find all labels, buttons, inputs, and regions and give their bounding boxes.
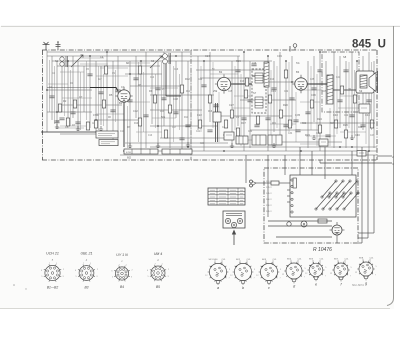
wire v26 — [197, 56, 199, 130]
wire v38 — [307, 61, 309, 148]
resistor R2 — [73, 100, 76, 108]
svg-text:R22: R22 — [302, 123, 307, 125]
svg-text:C41: C41 — [336, 77, 341, 79]
wire v32 — [249, 61, 251, 148]
tube base UCH21 — [41, 251, 65, 289]
capacitor C1 — [49, 95, 54, 97]
capacitor C12 — [213, 104, 218, 106]
speaker section box (dash-dot) — [322, 52, 359, 112]
lamp resistor box — [236, 136, 248, 144]
pickup jack above frame — [293, 44, 297, 48]
capacitor C34 — [70, 111, 75, 113]
wire v34 — [273, 61, 275, 132]
svg-text:C20: C20 — [198, 79, 203, 81]
svg-text:C47: C47 — [370, 135, 375, 137]
svg-text:R25: R25 — [322, 91, 327, 93]
capacitor C3 — [75, 121, 80, 123]
svg-text:R12: R12 — [185, 77, 190, 81]
capacitor C7 — [143, 114, 148, 116]
capacitor C17 — [283, 124, 288, 126]
svg-text:B4: B4 — [120, 285, 124, 289]
wire p17 — [336, 238, 338, 243]
wire v13 — [112, 61, 114, 140]
capacitor C6 — [127, 99, 132, 101]
ballast resistor R30 — [293, 178, 296, 188]
svg-text:R19: R19 — [270, 79, 275, 81]
IF coil lower — [255, 97, 263, 108]
resistor R17 — [279, 110, 282, 118]
main frame top (dash-dot) — [42, 49, 377, 51]
mains voltage labels — [266, 181, 272, 213]
capacitor C33 — [133, 77, 138, 79]
wire feedback — [300, 122, 375, 124]
capacitor C22 — [366, 99, 371, 101]
output transformer S5 — [327, 75, 333, 104]
switch wafer d — [282, 258, 307, 288]
svg-text:B1: B1 — [119, 101, 123, 105]
svg-text:C30: C30 — [248, 131, 253, 133]
IF coil upper — [255, 73, 263, 83]
svg-text:R7: R7 — [127, 125, 131, 129]
svg-text:B3: B3 — [84, 285, 88, 289]
capacitor C11 — [201, 84, 206, 86]
capacitor C38 — [254, 124, 259, 126]
svg-text:R15: R15 — [236, 59, 241, 63]
wire v45 — [351, 52, 353, 140]
wire v28 — [209, 52, 211, 122]
wire bus h24 — [150, 146, 377, 148]
svg-text:145 V: 145 V — [266, 193, 272, 195]
wire p16 — [245, 155, 247, 183]
wire v49 — [373, 61, 375, 148]
capacitor C8 — [155, 87, 160, 89]
wire bus h3 — [52, 60, 272, 62]
capacitor C2 — [59, 117, 64, 119]
svg-text:c: c — [268, 286, 270, 290]
svg-text:a: a — [217, 286, 219, 290]
svg-text:UM 4: UM 4 — [154, 252, 163, 256]
capacitor C29 — [343, 69, 348, 71]
wire v19 — [151, 66, 153, 124]
wire bus h2 — [47, 55, 240, 57]
main frame right (dash-dot) — [376, 50, 378, 160]
capacitor C4 — [98, 91, 103, 93]
svg-text:B3: B3 — [296, 70, 300, 74]
signal trace 7 — [252, 75, 266, 77]
svg-text:1M: 1M — [348, 89, 351, 91]
capacitor C32 — [179, 137, 184, 139]
tube B1 UCH21 (mixer) — [115, 87, 132, 105]
wire v12 — [106, 52, 108, 133]
svg-text:C21: C21 — [196, 131, 201, 133]
signal trace 5 — [166, 64, 181, 96]
capacitor C14 — [247, 99, 252, 101]
capacitor C36 — [295, 129, 300, 131]
svg-text:4708: 4708 — [126, 152, 132, 154]
svg-text:220 V: 220 V — [266, 205, 272, 207]
ground bus left — [41, 131, 106, 133]
svg-text:C40: C40 — [333, 113, 338, 117]
svg-text:UY 1 N: UY 1 N — [116, 253, 128, 257]
resistor R22 — [344, 130, 347, 138]
capacitor C15 — [265, 117, 270, 119]
switch wafer f — [330, 258, 353, 286]
resistor R27 — [164, 130, 167, 138]
switch wafer g — [355, 257, 378, 285]
tube B4 UY1N (rectifier) — [330, 222, 345, 238]
resistor R16 — [268, 95, 271, 103]
svg-text:R18: R18 — [208, 111, 213, 113]
volume control track — [215, 103, 217, 142]
resistor R28 — [284, 70, 287, 78]
resistor R23 — [353, 95, 356, 103]
wire v5 — [67, 61, 69, 125]
svg-text:C27: C27 — [229, 103, 234, 107]
svg-text:C6: C6 — [65, 125, 69, 129]
wire v22 — [169, 56, 171, 148]
wire minor horizontals — [48, 58, 366, 144]
tube base UY1N — [111, 253, 133, 289]
resistor R8 — [153, 95, 156, 103]
svg-text:C13: C13 — [148, 135, 153, 137]
svg-text:R24: R24 — [317, 117, 322, 121]
antenna coil S1 — [60, 57, 64, 61]
svg-text:C7: C7 — [79, 95, 83, 99]
resistor R19 — [310, 100, 313, 108]
loudspeaker — [356, 71, 374, 93]
section divider (dash-dot) — [190, 50, 192, 160]
wire bus h9 — [130, 85, 182, 87]
svg-text:C32: C32 — [284, 91, 289, 93]
oscillator note box 1 — [96, 131, 118, 138]
wire bus h21 — [160, 137, 232, 139]
pointer arrow — [233, 234, 235, 245]
coupling unit box — [224, 132, 234, 140]
wire p9 — [276, 236, 332, 238]
wire v2 — [51, 56, 53, 120]
dial assembly box L — [124, 149, 158, 154]
wire bus h6 — [125, 73, 162, 75]
svg-text:25k: 25k — [213, 89, 218, 93]
wire v8 — [83, 66, 85, 112]
resistor R20 — [318, 125, 321, 133]
wire v35 — [279, 52, 281, 140]
wire v15 — [129, 61, 131, 148]
wire junctions — [46, 51, 370, 152]
resistor R18 — [288, 120, 291, 128]
wire p15 — [358, 232, 374, 234]
svg-text:B5: B5 — [156, 285, 160, 289]
wire v40 — [319, 52, 321, 151]
wire bus h22 — [268, 141, 342, 143]
tube B2 UCH21 (IF amp) — [215, 74, 233, 93]
signal trace 6 — [333, 89, 356, 91]
wire bus h18 — [150, 125, 218, 127]
resistor R6 — [86, 122, 89, 130]
wire p12 — [373, 155, 375, 233]
capacitor C30 — [235, 69, 240, 71]
resistor R25 — [224, 120, 227, 128]
svg-text:C17: C17 — [172, 127, 177, 129]
output lead 2 — [377, 155, 392, 157]
signal trace 1 — [90, 88, 118, 92]
capacitor C19 — [311, 87, 316, 89]
wire p7 — [268, 220, 332, 222]
wire v47 — [362, 56, 364, 130]
wire p19 — [287, 195, 290, 197]
wire v44 — [345, 61, 347, 148]
capacitor C20 — [337, 99, 342, 101]
svg-text:C25: C25 — [228, 91, 233, 93]
svg-text:125 V: 125 V — [266, 187, 272, 189]
resistor R31b — [245, 78, 248, 86]
switch wafer a — [205, 259, 231, 290]
wire bus h14 — [150, 109, 202, 111]
wire p1 — [267, 155, 269, 217]
svg-text:C18: C18 — [173, 97, 178, 101]
wire v11 — [100, 66, 102, 125]
wire p20 — [287, 201, 290, 203]
wire v27 — [203, 61, 205, 151]
capacitor above frame — [56, 43, 61, 51]
paper speck 2 — [25, 288, 26, 289]
svg-text:245 V: 245 V — [266, 211, 272, 213]
wire v9 — [89, 56, 91, 128]
wire v10 — [95, 61, 97, 133]
svg-text:0,1: 0,1 — [121, 85, 125, 89]
resistor R4 — [102, 100, 105, 108]
svg-text:C42: C42 — [344, 115, 349, 117]
wire v42 — [333, 52, 335, 148]
wire v23 — [175, 61, 177, 118]
capacitor C5 — [110, 109, 115, 111]
dial assembly box R — [162, 149, 192, 154]
svg-text:B2: B2 — [219, 70, 223, 74]
wire bus h13 — [60, 104, 122, 106]
wire bus h23 — [125, 142, 228, 144]
wire bus h17 — [96, 119, 142, 121]
svg-text:50k: 50k — [161, 115, 166, 119]
wire v25 — [187, 61, 189, 148]
wire p10 — [361, 147, 363, 243]
voltage adaptor box — [290, 175, 356, 217]
resistor R32b — [256, 116, 259, 124]
capacitor C16 — [271, 87, 276, 89]
wire p2 — [284, 155, 286, 175]
capacitor C28 — [325, 134, 330, 136]
antenna A — [43, 42, 50, 50]
tuning arrow — [71, 55, 83, 67]
wire bus h7 — [200, 77, 252, 79]
resistor R10 — [180, 85, 183, 93]
resistor R9 — [168, 105, 171, 113]
wire v21 — [163, 52, 165, 126]
svg-text:R23: R23 — [305, 133, 310, 137]
wire bus h8 — [268, 81, 296, 83]
component value labels — [49, 54, 370, 137]
wire p3 — [299, 147, 301, 175]
svg-text:0,05: 0,05 — [295, 113, 301, 117]
page top edge — [1, 25, 400, 27]
wire v29 — [231, 61, 233, 148]
terminal strip box 1 — [252, 135, 266, 145]
svg-text:B1—B2: B1—B2 — [47, 286, 59, 290]
wire v24 — [181, 52, 183, 151]
wire v6 — [72, 56, 74, 118]
svg-text:R29: R29 — [358, 127, 363, 129]
svg-text:R26: R26 — [343, 123, 348, 127]
svg-text:C12: C12 — [133, 109, 138, 113]
adaptor plug detail — [223, 211, 245, 228]
wire grid feed — [47, 87, 90, 89]
wire bus h20 — [60, 133, 112, 135]
svg-text:R9: R9 — [149, 89, 153, 93]
capacitor C31 — [207, 129, 212, 131]
svg-text:SK2–SK7A: SK2–SK7A — [352, 284, 364, 287]
svg-text:S1: S1 — [55, 59, 59, 63]
power unit frame (dash-dot) — [264, 168, 358, 243]
capacitor C61 — [293, 119, 298, 121]
wire v33 — [267, 56, 269, 151]
svg-text:SK1 SK6: SK1 SK6 — [209, 259, 219, 261]
svg-text:200 V: 200 V — [266, 199, 272, 201]
page bottom edge — [0, 308, 390, 310]
svg-text:C34: C34 — [288, 133, 293, 135]
wire bus h12 — [240, 99, 296, 101]
wire p11 — [367, 151, 369, 238]
resistor R11 — [198, 120, 201, 128]
capacitor C13 — [241, 117, 246, 119]
oscillator coil S3 — [163, 54, 168, 59]
signal trace 3 — [231, 83, 252, 85]
osc tuning arrow — [150, 56, 162, 68]
resistor R26 — [104, 66, 107, 74]
wire bus h4 — [57, 65, 160, 67]
switch wafer c — [256, 259, 282, 290]
wire v17 — [140, 61, 142, 151]
electrolytic C51 — [287, 222, 291, 226]
svg-text:UBL 21: UBL 21 — [81, 252, 93, 256]
svg-text:C14: C14 — [150, 77, 155, 79]
wire v3 — [56, 61, 58, 128]
wire bus h19 — [250, 129, 322, 131]
svg-text:C36: C36 — [311, 93, 316, 97]
capacitor C18 — [305, 111, 310, 113]
smoothing choke S10 — [318, 219, 327, 223]
paper speck 1 — [13, 284, 15, 286]
tone cap box — [319, 139, 328, 146]
svg-text:S3: S3 — [151, 59, 155, 63]
wire v39 — [313, 56, 315, 122]
IF transformer can (dashed) — [252, 69, 266, 113]
svg-text:C4: C4 — [100, 55, 104, 59]
IF primary coil — [264, 62, 269, 87]
micro labels — [52, 63, 377, 145]
oscillator note box 2 — [99, 140, 118, 146]
switch wafer b — [230, 259, 256, 290]
speaker terminal box — [359, 104, 370, 113]
svg-text:C31: C31 — [271, 89, 276, 93]
ground tabs — [55, 124, 354, 147]
resistor R12 — [208, 95, 211, 103]
resistor R24 — [138, 66, 141, 74]
svg-text:R14: R14 — [184, 117, 189, 119]
svg-text:b: b — [242, 286, 244, 290]
wire p14 — [358, 237, 368, 239]
capacitor C26 — [161, 97, 166, 99]
mains plug — [250, 180, 253, 183]
svg-text:R13: R13 — [160, 111, 165, 113]
svg-text:e: e — [315, 282, 317, 286]
wire v31 — [243, 52, 245, 151]
wire v1 — [46, 50, 48, 132]
resistor R1 — [58, 104, 61, 112]
wire bus h5 — [196, 69, 264, 71]
resistor R29 — [340, 86, 343, 94]
svg-text:R2: R2 — [63, 99, 67, 103]
svg-text:845 U: 845 U — [352, 39, 386, 51]
capacitor C10 — [185, 124, 190, 126]
svg-text:C16: C16 — [174, 69, 179, 71]
wire p8 — [268, 225, 332, 227]
voltage selector switch — [315, 180, 359, 210]
capacitor C21 — [349, 114, 354, 116]
svg-text:R20: R20 — [283, 103, 288, 107]
svg-text:C33: C33 — [277, 54, 282, 58]
resistor R15 — [244, 90, 247, 98]
main frame left (dash-dot) — [42, 50, 44, 160]
resistor R5 — [66, 118, 69, 126]
wire minor verticals — [50, 60, 372, 148]
wire bus h25 — [124, 150, 377, 152]
wire v16 — [135, 56, 137, 118]
svg-text:C35: C35 — [310, 79, 315, 81]
wire v43 — [339, 56, 341, 128]
wire v4 — [61, 66, 63, 112]
svg-text:S8: S8 — [343, 55, 347, 59]
capacitor C37 — [317, 69, 322, 71]
electrolytic C50 — [301, 221, 307, 227]
wire bus h15 — [47, 111, 92, 113]
capacitor C23 — [360, 124, 365, 126]
main frame bottom (dash-dot) — [42, 159, 377, 161]
capacitor C25 — [115, 89, 120, 91]
svg-text:C44: C44 — [365, 113, 370, 117]
svg-text:470k: 470k — [93, 113, 99, 117]
page right edge — [387, 26, 394, 306]
switch wafer e — [305, 259, 327, 287]
signal trace 4 — [307, 83, 327, 85]
resistor R7 — [138, 118, 141, 126]
svg-text:C22: C22 — [197, 113, 202, 117]
wire p6 — [351, 151, 353, 175]
wire v7 — [77, 61, 79, 130]
wire v30 — [237, 56, 239, 126]
output lead 3 — [320, 162, 392, 164]
resistor R14 — [236, 128, 239, 136]
wire bus h1 — [47, 51, 190, 53]
capacitor C27 — [289, 97, 294, 99]
wire v46 — [356, 61, 358, 151]
wire p18 — [287, 189, 290, 191]
capacitor C24 — [87, 73, 92, 75]
svg-text:C46: C46 — [355, 133, 360, 137]
wire v41 — [325, 61, 327, 105]
wire v37 — [291, 56, 293, 126]
svg-text:C1: C1 — [49, 85, 53, 89]
svg-text:S7: S7 — [253, 91, 257, 95]
svg-text:C24: C24 — [205, 54, 210, 58]
